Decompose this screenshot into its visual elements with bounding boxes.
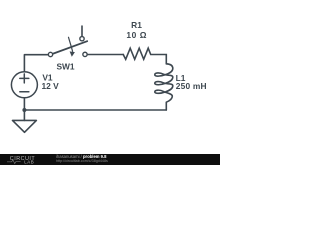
svg-text:10 Ω: 10 Ω xyxy=(126,30,147,40)
svg-text:R1: R1 xyxy=(131,20,142,30)
svg-text:http://circuitlab.com/c/38gd44: http://circuitlab.com/c/38gd448s xyxy=(56,159,108,163)
svg-text:250 mH: 250 mH xyxy=(176,81,207,91)
svg-text:SW1: SW1 xyxy=(56,62,74,72)
svg-text:12 V: 12 V xyxy=(41,81,59,91)
svg-text:LAB: LAB xyxy=(24,160,34,165)
